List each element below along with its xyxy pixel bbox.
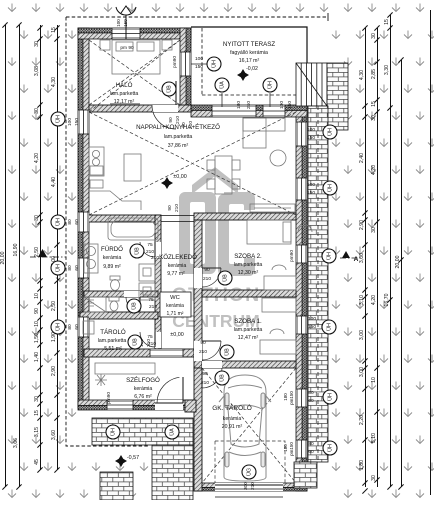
svg-text:3,10: 3,10	[359, 295, 365, 305]
svg-text:80: 80	[308, 390, 314, 396]
svg-text:3,66: 3,66	[13, 438, 19, 448]
svg-text:37,86 m²: 37,86 m²	[168, 143, 189, 149]
svg-text:pm150: pm150	[289, 391, 294, 405]
svg-text:2,85: 2,85	[371, 69, 377, 79]
window right wall nappali 1	[296, 122, 307, 146]
svg-text:lam.parketta: lam.parketta	[234, 262, 263, 268]
svg-text:80: 80	[308, 441, 314, 447]
wall FURDO bottom / WC top	[84, 291, 158, 297]
circled label UA porch	[165, 425, 179, 439]
svg-text:150: 150	[287, 101, 293, 109]
chandelier szoba2	[298, 225, 312, 232]
wall szelfogo right stub	[185, 400, 196, 412]
left dimension labels	[0, 27, 57, 465]
svg-text:A: A	[354, 256, 359, 263]
terrace dashed edge	[202, 28, 296, 95]
svg-text:3,00: 3,00	[359, 330, 365, 340]
svg-text:ÜB: ÜB	[221, 274, 228, 282]
svg-text:ÜB: ÜB	[223, 348, 230, 356]
window right wall nappali 2	[296, 178, 307, 200]
exterior wall right	[302, 106, 307, 491]
svg-text:lam.parketta: lam.parketta	[98, 338, 127, 344]
svg-text:ÜH: ÜH	[54, 115, 61, 123]
svg-text:10: 10	[34, 321, 40, 327]
dining table	[215, 156, 232, 194]
svg-text:80: 80	[67, 265, 73, 271]
svg-text:30: 30	[371, 475, 377, 481]
svg-text:150: 150	[195, 64, 203, 70]
svg-text:20,91 m²: 20,91 m²	[222, 424, 243, 430]
svg-text:WC: WC	[170, 295, 180, 301]
svg-text:300: 300	[243, 482, 249, 490]
right dimension labels	[359, 19, 401, 481]
svg-text:150: 150	[308, 324, 316, 330]
svg-text:30: 30	[371, 227, 377, 233]
svg-text:90: 90	[200, 340, 206, 346]
svg-text:30: 30	[371, 33, 377, 39]
svg-text:30: 30	[34, 215, 40, 221]
svg-text:2,90: 2,90	[359, 220, 365, 230]
car in garage	[219, 375, 271, 481]
svg-text:SZOBA 2.: SZOBA 2.	[234, 253, 262, 260]
opening szelfogo-kozlekedo 150	[150, 349, 183, 357]
door WC	[124, 291, 140, 297]
dashed roof overhang line	[66, 17, 328, 446]
svg-text:210: 210	[203, 276, 211, 282]
svg-text:4,20: 4,20	[34, 153, 40, 163]
brick pad bottom-right corner	[294, 462, 317, 488]
svg-text:75: 75	[148, 297, 154, 303]
svg-text:HÁLÓ: HÁLÓ	[116, 82, 133, 89]
svg-text:SZOBA 1.: SZOBA 1.	[234, 318, 262, 325]
svg-text:90: 90	[34, 308, 40, 314]
svg-text:3,30: 3,30	[384, 65, 390, 75]
svg-text:4,40: 4,40	[51, 177, 57, 187]
dashed diagonals NAPPALI	[89, 40, 296, 215]
svg-text:180: 180	[283, 444, 288, 452]
svg-text:ÜH: ÜH	[54, 264, 61, 272]
svg-text:FÜRDŐ: FÜRDŐ	[101, 246, 123, 253]
terrace outline	[191, 27, 307, 63]
svg-text:pm 90: pm 90	[120, 45, 134, 51]
window halo-terrace wall 100/150	[180, 52, 191, 76]
exterior wall top	[78, 28, 191, 33]
window right wall szoba1	[296, 316, 307, 334]
kitchen island	[124, 154, 141, 181]
svg-text:240: 240	[246, 101, 252, 109]
window left wall furdo 80/60	[78, 258, 89, 278]
small dim labels	[67, 19, 316, 490]
svg-text:ÜA: ÜA	[168, 428, 175, 436]
svg-text:pm150: pm150	[289, 442, 294, 456]
window right wall szoba2	[296, 245, 307, 263]
svg-text:TÁROLÓ: TÁROLÓ	[100, 329, 126, 336]
svg-text:ÜB: ÜB	[133, 247, 140, 255]
svg-text:1,50: 1,50	[34, 333, 40, 343]
wall TAROLO bottom / SZELFOGO top	[84, 349, 196, 357]
door SZOBA1	[194, 341, 202, 361]
shower corner	[84, 297, 106, 312]
svg-text:12,47 m²: 12,47 m²	[238, 335, 259, 341]
wall between HALO and terrace	[186, 28, 191, 107]
svg-text:2,20: 2,20	[359, 415, 365, 425]
circled label UG garage	[242, 465, 256, 479]
svg-text:10: 10	[34, 293, 40, 299]
svg-text:30: 30	[371, 115, 377, 121]
threshold kozlekedo opening	[160, 215, 194, 217]
svg-text:150: 150	[307, 135, 315, 141]
svg-text:210: 210	[188, 121, 194, 129]
svg-text:100: 100	[67, 118, 73, 126]
circled label UB szoba1	[220, 345, 234, 359]
svg-text:15: 15	[51, 27, 57, 33]
circled label UB halo door	[162, 82, 176, 96]
svg-text:15: 15	[384, 19, 390, 25]
svg-text:2,50: 2,50	[51, 301, 57, 311]
svg-text:60: 60	[74, 265, 80, 271]
bed in HALO	[112, 40, 160, 74]
bed szoba2	[247, 220, 291, 244]
svg-text:100: 100	[195, 56, 203, 62]
room label WC boxed	[160, 292, 191, 317]
svg-text:210: 210	[146, 249, 154, 255]
circled label UA terrace	[215, 78, 229, 92]
door FURDO	[155, 242, 161, 258]
svg-text:210: 210	[250, 482, 256, 490]
svg-text:1,80: 1,80	[359, 460, 365, 470]
window terrace (UH) in north wall	[263, 105, 285, 117]
svg-text:4,20: 4,20	[371, 165, 377, 175]
svg-text:80: 80	[67, 219, 73, 225]
svg-text:4,30: 4,30	[359, 70, 365, 80]
circled label UH terrace	[263, 78, 277, 92]
svg-text:lam.parketta: lam.parketta	[164, 134, 193, 140]
wall SZOBA2 / SZOBA1	[202, 290, 296, 297]
tv console	[250, 204, 295, 212]
svg-text:kerámia: kerámia	[134, 386, 153, 392]
svg-text:90: 90	[167, 205, 173, 211]
terrace brick pad	[327, 63, 348, 130]
svg-text:60: 60	[308, 449, 314, 455]
circled label UH right 4	[323, 441, 337, 455]
dashed diagonals garage	[202, 368, 296, 483]
svg-text:60: 60	[74, 324, 80, 330]
watermark logo roof	[172, 167, 260, 331]
terrace steps	[296, 63, 327, 106]
svg-text:6,76 m²: 6,76 m²	[134, 394, 152, 400]
exterior wall left	[78, 28, 83, 408]
svg-text:30: 30	[34, 396, 40, 402]
right dimension chain lines	[366, 10, 431, 495]
svg-text:ÜB: ÜB	[165, 85, 172, 93]
bathtub	[108, 218, 158, 240]
svg-text:ÜH: ÜH	[109, 428, 116, 436]
wall SZOBA1 / garage	[202, 361, 296, 368]
round table nappali	[270, 150, 286, 166]
svg-text:3,60: 3,60	[51, 430, 57, 440]
dashed diagonals HALO	[89, 40, 180, 105]
circled label UH right szoba2	[322, 249, 336, 263]
svg-text:90: 90	[181, 122, 187, 128]
svg-text:ÜH: ÜH	[266, 81, 273, 89]
svg-text:3,15: 3,15	[34, 427, 40, 437]
svg-text:fagyálló kerámia: fagyálló kerámia	[230, 50, 268, 56]
section line A right	[340, 257, 362, 259]
svg-text:kerámia: kerámia	[103, 255, 122, 261]
svg-text:3,00: 3,00	[359, 367, 365, 377]
section line A left	[30, 256, 66, 258]
garage door	[215, 483, 283, 491]
circled label UH porch	[106, 425, 120, 439]
svg-text:ÜH: ÜH	[326, 393, 333, 401]
wall HALO bottom	[89, 105, 191, 112]
circled label UB tarolo	[128, 335, 142, 349]
svg-text:ÜH: ÜH	[326, 128, 333, 136]
svg-text:ÜB: ÜB	[218, 374, 225, 382]
desk szoba2	[264, 276, 296, 290]
svg-text:150: 150	[307, 190, 315, 196]
svg-text:16,70: 16,70	[384, 293, 390, 306]
door HALO (in bottom wall)	[152, 105, 178, 112]
svg-text:210: 210	[146, 339, 152, 347]
svg-text:210: 210	[199, 349, 207, 355]
left dimension chain lines	[6, 25, 58, 487]
svg-text:lam.parketta: lam.parketta	[234, 327, 263, 333]
svg-text:pm90: pm90	[106, 392, 112, 404]
svg-text:SZÉLFOGÓ: SZÉLFOGÓ	[126, 377, 160, 384]
svg-text:100: 100	[308, 316, 316, 322]
svg-text:ÜB: ÜB	[131, 338, 138, 346]
svg-text:15: 15	[371, 101, 377, 107]
svg-text:ÜH: ÜH	[54, 323, 61, 331]
svg-text:-0,02: -0,02	[246, 66, 258, 72]
svg-text:15: 15	[34, 410, 40, 416]
window right wall garage 2	[296, 440, 307, 458]
svg-text:5,51 m²: 5,51 m²	[104, 346, 122, 352]
svg-text:ÜH: ÜH	[325, 323, 332, 331]
walkway brick strip bottom	[152, 445, 193, 500]
svg-text:60: 60	[308, 398, 314, 404]
svg-text:210: 210	[149, 304, 157, 310]
porch brick pad	[92, 418, 193, 445]
circled label UH right 1	[323, 125, 337, 139]
svg-text:ÜH: ÜH	[325, 252, 332, 260]
wall NAPPALI / FURDO top	[84, 215, 160, 222]
svg-text:9,89 m²: 9,89 m²	[103, 264, 121, 270]
svg-text:4,20: 4,20	[371, 295, 377, 305]
svg-text:150: 150	[74, 118, 80, 126]
svg-text:3,08: 3,08	[34, 66, 40, 76]
svg-text:ÜB: ÜB	[130, 302, 137, 310]
window right wall garage 1	[296, 389, 307, 407]
svg-text:30: 30	[34, 41, 40, 47]
svg-text:90: 90	[168, 117, 174, 123]
circled label UH halo window	[191, 63, 207, 65]
svg-text:kerámia: kerámia	[168, 263, 187, 269]
circled label UB wc	[127, 299, 141, 313]
svg-text:90: 90	[202, 371, 208, 377]
svg-text:100: 100	[116, 19, 121, 27]
door TAROLO	[155, 332, 161, 348]
svg-text:NYITOTT TERASZ: NYITOTT TERASZ	[223, 41, 275, 48]
svg-text:210: 210	[201, 380, 209, 386]
wall WC bottom / TAROLO top	[80, 312, 158, 319]
bench line halo	[110, 103, 140, 105]
circled label UH left 3	[51, 261, 65, 275]
washer tarolo	[83, 321, 94, 334]
svg-text:210: 210	[174, 204, 180, 212]
circled label UB furdo	[130, 244, 144, 258]
svg-text:lam.parketta: lam.parketta	[110, 91, 139, 97]
window HALO top (pm90)	[112, 28, 140, 39]
svg-text:10: 10	[371, 377, 377, 383]
sideboard szelfogo	[95, 363, 155, 374]
svg-text:75: 75	[147, 242, 153, 248]
svg-text:kerámia: kerámia	[223, 416, 242, 422]
circled label UH left 2	[51, 215, 65, 229]
right brick walkway strip	[308, 106, 328, 462]
svg-text:45: 45	[34, 459, 40, 465]
watermark OC letters	[179, 192, 216, 274]
wc toilet	[110, 301, 118, 311]
svg-text:2,90: 2,90	[51, 366, 57, 376]
svg-text:80: 80	[67, 324, 73, 330]
toilet furdo	[111, 280, 120, 291]
svg-text:210: 210	[151, 255, 159, 261]
flue symbol top	[116, 6, 136, 39]
svg-text:16,90: 16,90	[13, 243, 19, 256]
svg-text:12,30 m²: 12,30 m²	[238, 270, 259, 276]
svg-text:KÖZLEKEDŐ: KÖZLEKEDŐ	[159, 254, 197, 261]
svg-text:100: 100	[307, 127, 315, 133]
svg-text:ÜH: ÜH	[326, 444, 333, 452]
svg-text:210: 210	[175, 116, 181, 124]
entry door szelfogo	[155, 400, 183, 410]
cabinet kozlekedo	[139, 264, 155, 281]
svg-text:kerámia: kerámia	[166, 303, 184, 309]
window left wall tarolo 80/60	[78, 317, 89, 337]
circled label UB szoba2	[218, 271, 232, 285]
level mark terrace	[237, 69, 249, 81]
svg-text:ÜG: ÜG	[245, 468, 252, 476]
wall garage left	[194, 368, 202, 491]
svg-text:1,40: 1,40	[34, 352, 40, 362]
svg-text:ÜH: ÜH	[210, 60, 217, 68]
wall FURDO right / hall left	[155, 215, 161, 349]
svg-text:pm90: pm90	[289, 250, 295, 262]
svg-text:1,71 m²: 1,71 m²	[167, 311, 184, 317]
svg-text:ÜA: ÜA	[218, 81, 225, 89]
plant szelfogo	[95, 374, 107, 386]
circled label UH right szoba1	[322, 320, 336, 334]
svg-text:12,17 m²: 12,17 m²	[114, 99, 135, 105]
desk szoba1	[260, 340, 296, 354]
circled label UH right 3	[323, 390, 337, 404]
window left wall nappali 80/60	[78, 212, 89, 232]
svg-text:±0,00: ±0,00	[173, 174, 186, 180]
svg-text:ÜH: ÜH	[54, 218, 61, 226]
door szoba1-garage	[202, 361, 222, 368]
svg-text:100: 100	[279, 101, 285, 109]
circled label UB garage door	[215, 371, 229, 385]
small brick pad bottom-left	[100, 472, 133, 500]
svg-text:4,30: 4,30	[51, 77, 57, 87]
svg-text:GK. TÁROLÓ: GK. TÁROLÓ	[212, 403, 252, 412]
exterior wall bottom (szelfogo)	[78, 406, 196, 411]
window szelfogo bottom pm90	[107, 400, 133, 410]
kitchen counter nappali	[89, 147, 104, 176]
sofa nappali	[243, 118, 285, 131]
svg-text:ÜH: ÜH	[326, 184, 333, 192]
central wall KOZLEKEDO right	[194, 220, 202, 368]
svg-text:±0,00: ±0,00	[170, 332, 183, 338]
svg-text:16,17 m²: 16,17 m²	[239, 58, 260, 64]
door terrace (UA) in north wall	[212, 105, 256, 117]
svg-text:30: 30	[34, 108, 40, 114]
svg-text:20,00: 20,00	[395, 255, 401, 268]
door SZOBA2	[194, 268, 202, 288]
svg-text:90: 90	[204, 267, 210, 273]
svg-text:20,00: 20,00	[0, 251, 6, 264]
leader lines from circles	[221, 93, 223, 107]
svg-text:180: 180	[283, 393, 288, 401]
circled label UH right 2	[323, 181, 337, 195]
svg-text:60: 60	[74, 219, 80, 225]
svg-text:180: 180	[236, 101, 242, 109]
circled label UH left 4	[51, 320, 65, 334]
svg-text:pm90: pm90	[172, 56, 178, 68]
wardrobe szoba1	[262, 298, 296, 312]
svg-text:2,40: 2,40	[359, 153, 365, 163]
window left wall halo 100/150	[78, 110, 89, 134]
svg-text:5,10: 5,10	[371, 433, 377, 443]
dashed rect garage door front	[215, 441, 285, 483]
north wall nappali-terrace	[191, 105, 307, 110]
svg-text:9,77 m²: 9,77 m²	[167, 271, 185, 277]
circled label UH left 1	[51, 112, 65, 126]
svg-text:100: 100	[307, 182, 315, 188]
wall SZOBA2 top	[194, 213, 296, 220]
svg-text:-0,57: -0,57	[127, 455, 139, 461]
svg-text:NAPPALI+KONYHA+ÉTKEZŐ: NAPPALI+KONYHA+ÉTKEZŐ	[136, 124, 220, 131]
washbasin furdo	[84, 244, 98, 273]
exterior wall bottom (garage)	[194, 487, 307, 491]
